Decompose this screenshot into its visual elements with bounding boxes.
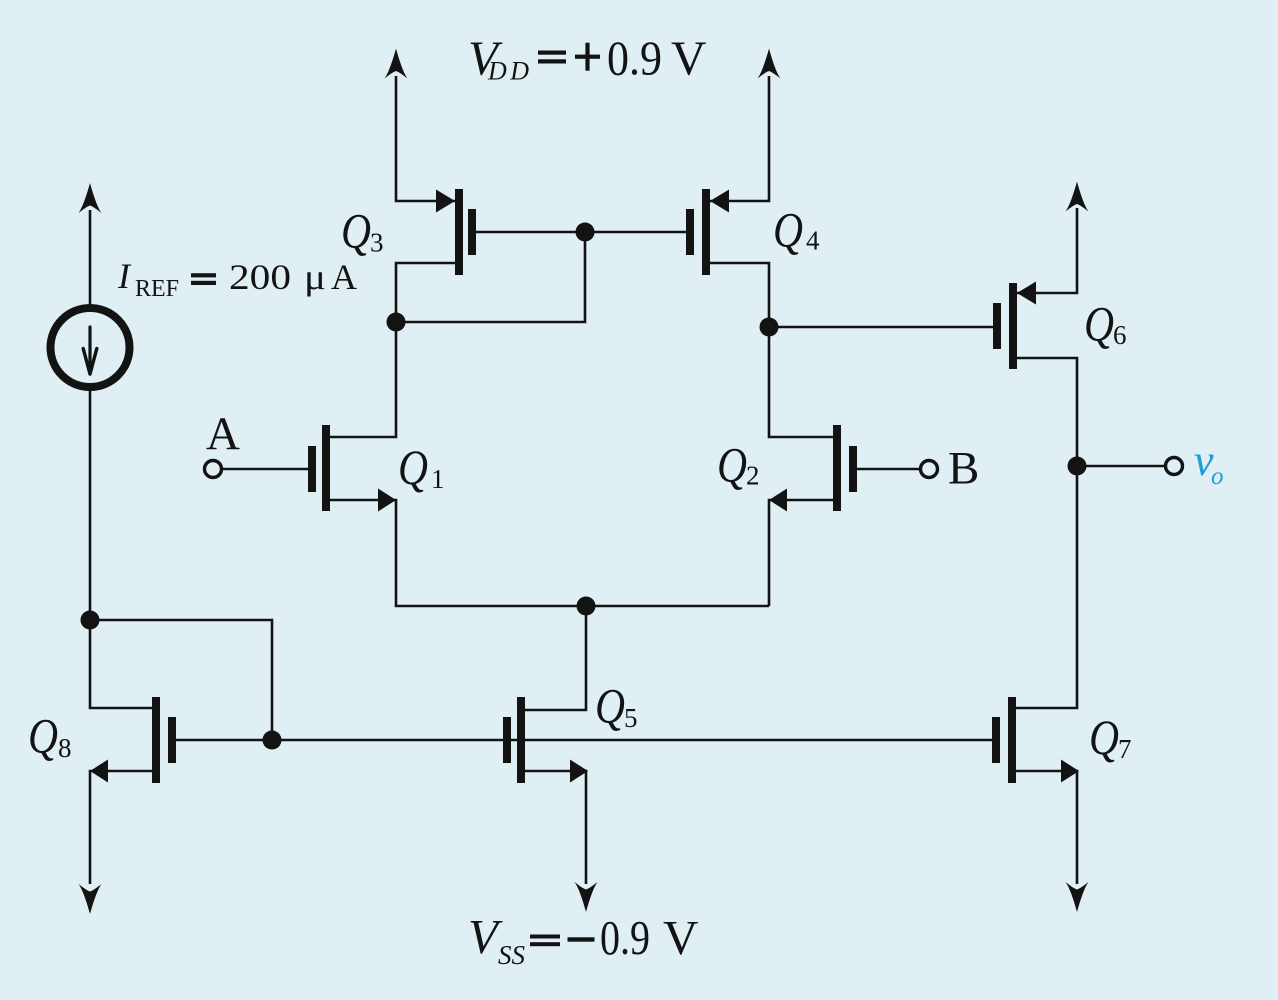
transistor Q4 [686,189,729,275]
wire Q3/Q4 gate line [476,231,686,234]
IREF arrow [79,183,102,213]
wire IREF node to gate bus [90,620,272,740]
svg-text:I: I [117,256,132,296]
svg-text:Q: Q [341,203,371,259]
svg-text:REF: REF [135,276,179,302]
svg-text:A: A [331,257,357,297]
VSS arrow below Q8 [79,884,102,914]
wire Q3 drain to Q1 drain [330,263,455,437]
wire VDD branch above Q4 [710,76,769,201]
VDD arrow above Q6 [1066,182,1089,212]
wire Q2 source drop [769,500,833,606]
transistor Q8 [90,697,176,783]
node tail [577,597,596,616]
wire A lead [222,468,308,471]
svg-text:5: 5 [624,703,638,733]
current source IREF [51,308,130,387]
wire IREF source to Q8 drain [90,389,152,708]
node gate bus [263,731,282,750]
wire Q4 drain to Q6 gate [769,326,993,329]
svg-text:200: 200 [229,257,291,297]
terminal B [921,461,938,478]
svg-text:Q: Q [773,202,803,258]
svg-text:Q: Q [1084,296,1114,352]
wire tail to Q5 drain [525,606,586,710]
svg-text:A: A [206,408,240,460]
svg-text:0.9: 0.9 [607,31,662,86]
node Q3 drain [387,313,406,332]
svg-text:2: 2 [746,461,760,491]
wire gate bus Q8-Q5-Q7 [176,739,992,742]
node gate line Q3/Q4 [576,223,595,242]
svg-text:SS: SS [498,940,526,970]
node Q4 drain / Q6 gate [760,318,779,337]
transistor Q5 [503,697,588,783]
wire Q4 drain to Q2 drain [710,263,833,437]
transistor Q7 [992,697,1079,783]
svg-text:6: 6 [1113,320,1127,350]
wire gate-drain tie of Q3 [396,232,585,322]
node IREF / Q8 [81,611,100,630]
svg-text:7: 7 [1118,734,1132,764]
wire VDD branch above Q6 [1017,208,1077,293]
svg-text:o: o [1211,463,1224,490]
svg-text:0.9: 0.9 [600,910,650,965]
wire output node to vo terminal [1077,465,1165,468]
wire Q7 source lead [1016,771,1077,884]
transistor Q3 [436,189,476,275]
svg-text:DD: DD [487,57,533,86]
label VDD = +0.9 V [468,31,706,86]
svg-text:4: 4 [806,226,820,256]
wire IREF top [89,210,92,307]
VDD arrow above Q4 [758,49,781,79]
label VSS = -0.9 V [468,909,698,970]
svg-text:Q: Q [595,678,625,734]
VSS arrow below Q5 [575,882,598,912]
node output [1068,457,1087,476]
svg-text:8: 8 [58,733,72,763]
svg-text:V: V [663,910,698,965]
terminal vo [1166,458,1183,475]
wire Q8 source lead [90,771,152,884]
wire Q6 drain to Q7 drain [1016,358,1077,708]
svg-text:V: V [671,31,706,86]
terminal A [205,461,222,478]
svg-text:3: 3 [370,228,384,258]
transistor Q1 [308,425,396,512]
wire Q5 source lead [525,771,586,884]
wire VDD branch above Q3 [396,76,455,201]
svg-text:μ: μ [304,257,326,297]
svg-text:B: B [948,443,979,495]
VSS arrow below Q7 [1066,882,1089,912]
svg-text:1: 1 [431,464,445,494]
wire Q1 source to tail [330,500,769,606]
svg-text:Q: Q [28,708,58,764]
wire B lead [857,468,920,471]
svg-text:Q: Q [1089,709,1119,765]
transistor Q6 [993,282,1036,370]
transistor Q2 [769,425,857,512]
VDD arrow above Q3 [385,49,408,79]
svg-text:Q: Q [398,439,428,495]
svg-text:Q: Q [717,437,747,493]
label IREF = 200 uA [117,256,357,302]
